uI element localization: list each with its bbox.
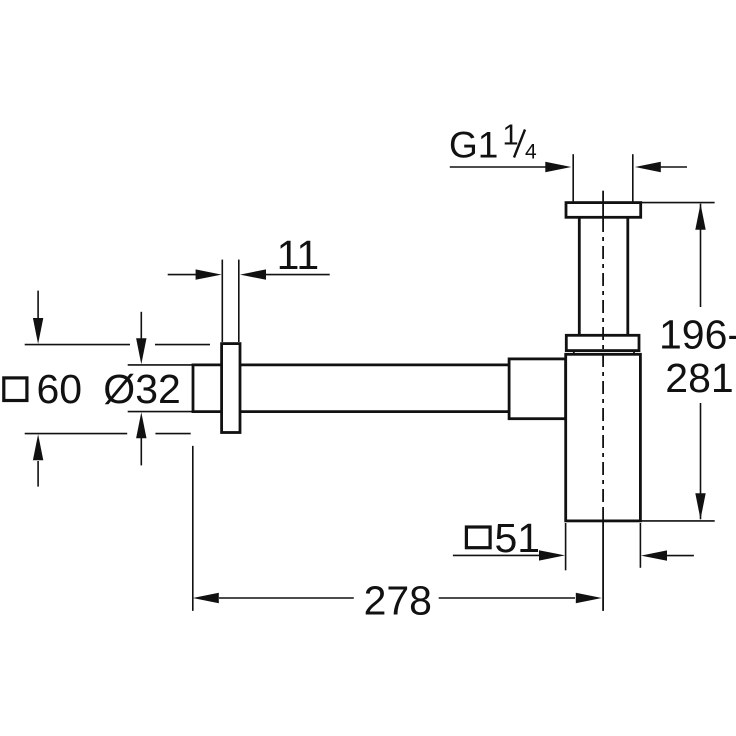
- svg-text:196-: 196-: [659, 311, 736, 357]
- svg-text:Ø32: Ø32: [103, 366, 181, 412]
- svg-text:4: 4: [525, 141, 537, 164]
- svg-text:G1: G1: [449, 125, 498, 166]
- svg-text:1: 1: [503, 120, 519, 152]
- svg-text:281: 281: [665, 355, 733, 401]
- svg-text:11: 11: [277, 232, 320, 278]
- svg-text:60: 60: [37, 366, 83, 412]
- svg-text:278: 278: [364, 578, 432, 624]
- svg-text:51: 51: [495, 515, 541, 561]
